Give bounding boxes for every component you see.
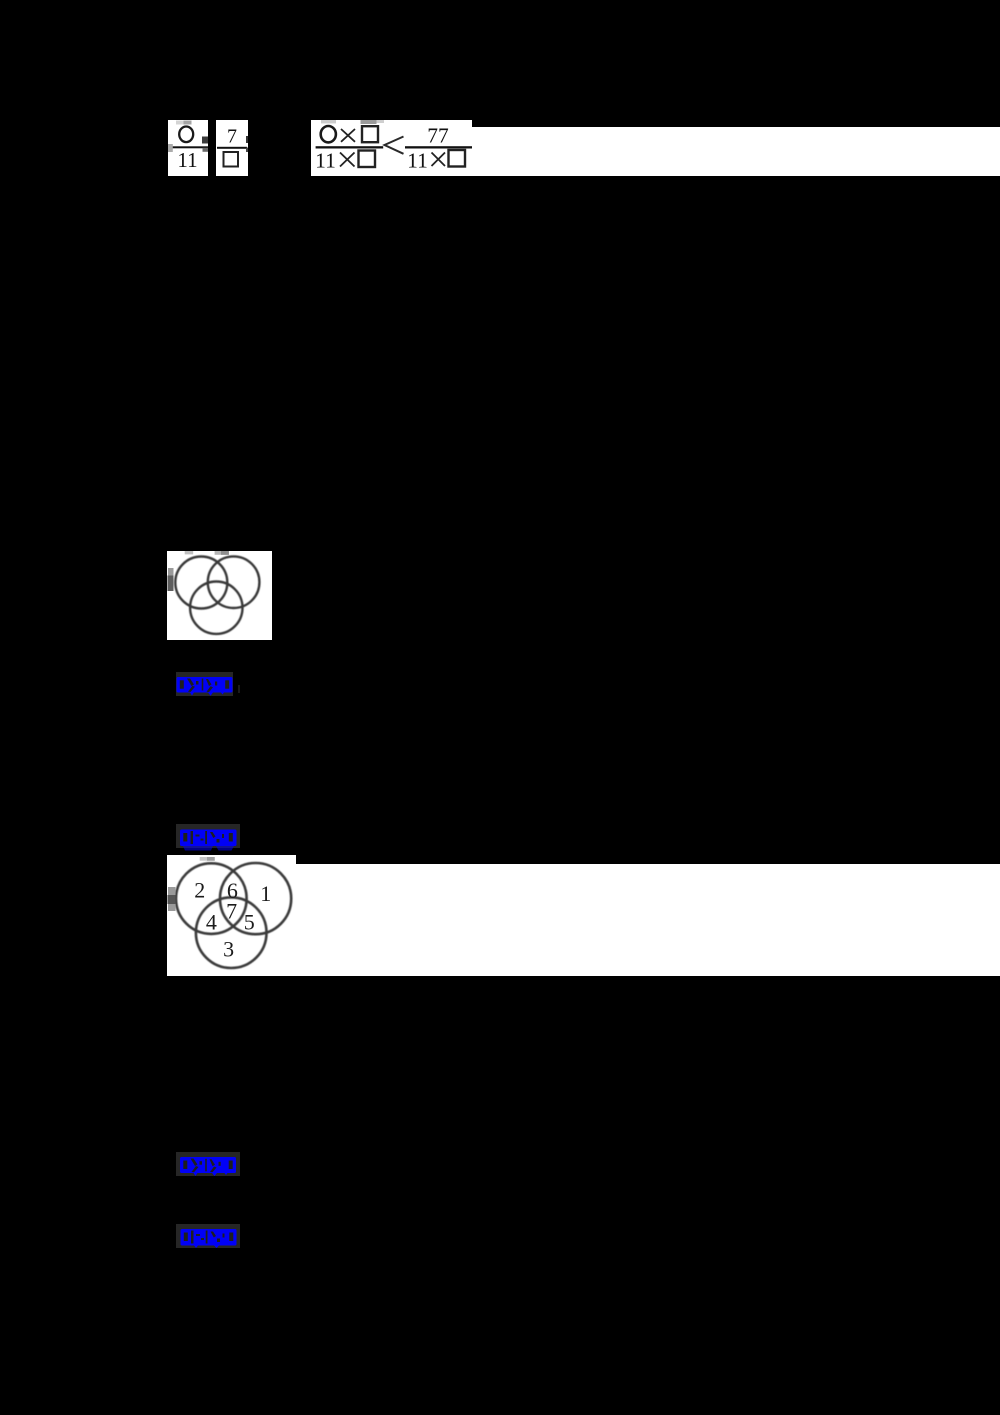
- circle bottom: [196, 897, 267, 968]
- denominator box: [224, 152, 239, 167]
- dark text fragment after marker 1: [238, 685, 241, 694]
- grey bar left light: [168, 568, 174, 576]
- times bottom right: [432, 153, 446, 167]
- svg-text:11: 11: [407, 148, 428, 172]
- svg-text:3: 3: [223, 936, 234, 961]
- fraction bar: [173, 146, 209, 148]
- box bottom: [359, 151, 376, 168]
- venn diagram image, three empty circles (patch D): [167, 551, 272, 640]
- numbered venn diagram image (patch E1): [167, 855, 296, 976]
- grey bar left light: [168, 887, 176, 895]
- marker 4: blue tag "answer": [176, 1224, 240, 1248]
- equals fragment lower: [203, 148, 209, 152]
- svg-text:11: 11: [177, 148, 197, 172]
- svg-text:7: 7: [226, 898, 237, 923]
- svg-text:4: 4: [206, 909, 217, 934]
- blue text body: [181, 1229, 237, 1246]
- dark stroke gaps: [180, 679, 229, 693]
- blue text body: [180, 830, 237, 847]
- O of numerator: [321, 126, 336, 142]
- marker 2: blue tag "answer": [176, 824, 240, 848]
- fraction image O/11 (patch A): [168, 120, 208, 176]
- grey bar left dark: [168, 576, 174, 592]
- svg-text:77: 77: [427, 124, 449, 148]
- grey fragment top-left: [176, 121, 184, 125]
- dark fragment right upper: [246, 136, 248, 143]
- circle top-right: [208, 556, 260, 608]
- grey bar left dark: [168, 895, 176, 904]
- dark stroke gaps: [184, 1231, 234, 1244]
- numerator O: [179, 127, 193, 143]
- marker 3: blue tag "analysis": [176, 1152, 240, 1176]
- equals fragment upper: [202, 137, 208, 144]
- fraction image 7/box (patch B): [216, 120, 248, 176]
- svg-text:11: 11: [315, 148, 336, 172]
- box bottom right: [449, 150, 466, 167]
- grey bar left light2: [168, 904, 176, 911]
- grey fragment left-edge: [168, 144, 173, 152]
- svg-text:2: 2: [194, 877, 205, 902]
- grey mark top tail: [377, 120, 385, 123]
- circle top-left: [176, 863, 247, 934]
- grey mark top: [200, 857, 215, 861]
- blue text body: [180, 1157, 236, 1173]
- dark stroke gaps: [183, 1159, 232, 1173]
- inequality formula image (patch C1): [311, 120, 472, 176]
- circle bottom: [190, 582, 242, 634]
- grey mark top dark: [361, 120, 377, 124]
- grey mark top light: [321, 120, 336, 123]
- right fraction bar: [405, 146, 472, 148]
- circle top-left: [175, 557, 227, 609]
- circle top-right: [220, 863, 291, 934]
- less-than sign: [385, 137, 404, 154]
- grey mark top dark part: [207, 857, 215, 861]
- white line band right of formula (C2): [472, 127, 1000, 176]
- fraction bar: [217, 147, 247, 149]
- grey fragment top-dark: [184, 121, 192, 125]
- left fraction bar: [316, 146, 384, 148]
- svg-text:7: 7: [227, 126, 237, 148]
- grey mark top2: [215, 551, 229, 555]
- times sign top: [341, 129, 355, 142]
- times sign bottom: [340, 153, 355, 167]
- blue text body: [177, 677, 233, 693]
- svg-text:1: 1: [260, 881, 271, 906]
- dark stroke gaps: [183, 831, 233, 844]
- dark fragment right lower: [246, 148, 248, 153]
- marker 1: blue tag "analysis": [176, 672, 233, 696]
- white line band right of numbered venn (E2): [296, 864, 1000, 976]
- grey mark top1: [185, 551, 194, 554]
- grey mark top2 dark part: [221, 551, 229, 555]
- svg-text:5: 5: [244, 910, 255, 935]
- box top: [362, 126, 378, 142]
